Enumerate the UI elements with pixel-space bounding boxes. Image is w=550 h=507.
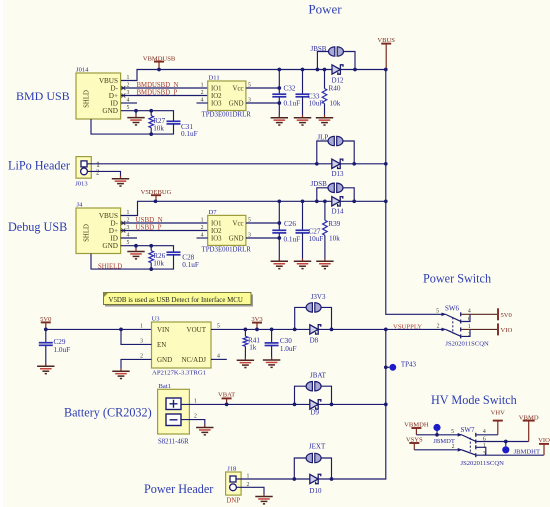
junction J3V3 right	[330, 328, 334, 332]
no-ERC marks on J4 D- / D+ pins	[121, 221, 125, 225]
svg-text:3V3: 3V3	[251, 316, 263, 323]
wire J4 ID pin stub	[121, 237, 137, 239]
resistor R26 10k	[149, 251, 154, 263]
power port 3V3	[251, 316, 263, 329]
capacitor C29 1.0uF	[45, 329, 47, 342]
svg-text:D14: D14	[332, 208, 345, 216]
wire LiPo pin1 row	[87, 163, 332, 165]
junction C27 top	[301, 199, 305, 203]
junction R39 top	[323, 199, 327, 203]
svg-text:S8211-46R: S8211-46R	[158, 438, 189, 445]
svg-text:1: 1	[201, 217, 204, 223]
svg-text:10k: 10k	[153, 259, 164, 267]
ground at Bat1 pin2	[196, 425, 213, 435]
junction R27 / shield rail	[149, 132, 153, 136]
svg-text:JBAT: JBAT	[310, 371, 327, 379]
junction 5V0 stem	[44, 328, 48, 332]
junction C33 top	[301, 68, 305, 72]
junction 3V3 stem	[255, 328, 259, 332]
svg-text:10uF: 10uF	[309, 235, 324, 243]
svg-text:D9: D9	[311, 409, 320, 417]
svg-text:GND: GND	[102, 242, 118, 250]
ground at J18 pin2	[255, 494, 272, 504]
svg-text:10uF: 10uF	[309, 100, 324, 108]
jumper JBSB	[317, 52, 329, 70]
junction JDSB left	[315, 199, 319, 203]
svg-text:2: 2	[452, 444, 455, 450]
svg-text:VBMDUSB: VBMDUSB	[143, 55, 176, 62]
svg-text:VBUS: VBUS	[377, 37, 395, 44]
svg-text:LiPo Header: LiPo Header	[8, 159, 70, 173]
svg-text:1: 1	[201, 82, 204, 88]
power port 5V0 (at C29)	[40, 316, 52, 329]
junction LiPo row / VBUS column	[384, 162, 388, 166]
junction J3V3 left	[293, 328, 297, 332]
ground at R41	[237, 357, 254, 367]
wire V5DEBUG net (J4 VBUS to D14 anode)	[121, 201, 332, 215]
diode D8 (schottky)	[310, 325, 321, 334]
junction R40 top	[323, 68, 327, 72]
power port VBAT	[218, 392, 235, 405]
wire SW7 pin4 to VHV	[477, 434, 498, 436]
svg-text:0.1uF: 0.1uF	[284, 235, 301, 243]
wire VOUT row (U3 to D8 anode)	[211, 328, 310, 330]
power port VBMDH	[404, 421, 429, 434]
wire VBAT row (Bat1 pin1 to D9 anode)	[181, 403, 310, 405]
svg-text:10k: 10k	[329, 234, 340, 242]
svg-text:Battery (CR2032): Battery (CR2032)	[64, 406, 152, 420]
wire D9 cathode to vertical	[318, 403, 386, 405]
note V5DB is used as USB Detect for Interface MCU	[104, 293, 254, 307]
junction J4 GND / ground	[134, 244, 138, 248]
svg-text:1: 1	[140, 323, 143, 329]
svg-text:IO2: IO2	[211, 228, 222, 235]
junction JDSB right	[352, 199, 356, 203]
svg-text:D8: D8	[310, 336, 319, 344]
svg-text:2: 2	[140, 353, 143, 359]
svg-text:SW7: SW7	[461, 426, 476, 434]
capacitor C32 0.1uF	[278, 70, 280, 95]
svg-text:2: 2	[201, 225, 204, 231]
svg-text:4: 4	[483, 429, 486, 435]
svg-text:5: 5	[436, 309, 439, 315]
junction JBSB left	[316, 68, 320, 72]
svg-text:JBSB: JBSB	[311, 45, 327, 53]
connector J4 (Debug USB)	[76, 208, 121, 254]
wire SW6 pin1 to VIO	[461, 328, 497, 330]
junction D9 row / vertical	[384, 403, 388, 407]
svg-text:2: 2	[201, 90, 204, 96]
wire D7 IO3 stub	[197, 237, 208, 239]
svg-text:JS202011SCQN: JS202011SCQN	[461, 460, 505, 467]
junction EN / VIN	[119, 328, 123, 332]
svg-text:GND: GND	[229, 100, 244, 107]
svg-text:D11: D11	[209, 74, 220, 81]
svg-text:U3: U3	[152, 316, 161, 323]
power port VBUS	[377, 37, 395, 70]
diode D12 (schottky)	[332, 65, 343, 74]
junction JLP left	[315, 162, 319, 166]
wire SW7 pin3 row to VIO	[477, 454, 544, 456]
wire J18 pin1 to D10 anode	[236, 478, 310, 480]
svg-text:2: 2	[194, 414, 197, 420]
wire J4 shield rail	[91, 254, 174, 270]
junction J4 GND / R26	[149, 244, 153, 248]
wire SW7 pin1 tie to pin3	[477, 447, 486, 455]
connector J013 (LiPo header)	[76, 157, 91, 179]
wire U3 NC/ADJ stub	[211, 358, 227, 360]
ground at U3 GND	[112, 368, 129, 378]
svg-text:C26: C26	[284, 220, 296, 228]
svg-text:VIN: VIN	[157, 326, 169, 334]
wire VSUPPLY vertical (TP43 / D9 / D10)	[318, 329, 386, 479]
power port V5DEBUG	[141, 189, 172, 202]
svg-text:SHIELD: SHIELD	[98, 263, 122, 270]
diode D10 (schottky)	[310, 474, 321, 483]
svg-text:JLP: JLP	[317, 134, 328, 142]
wire SW7 pin6 row	[477, 441, 529, 443]
svg-text:J013: J013	[75, 180, 88, 187]
svg-text:NC/ADJ: NC/ADJ	[181, 356, 206, 364]
wire VBUS vertical to SW6 pin5	[386, 70, 446, 315]
wire J18 pin2 to ground	[236, 487, 264, 496]
svg-text:SHLD: SHLD	[84, 90, 91, 108]
svg-text:2: 2	[96, 169, 100, 177]
junction D7 Vcc / C26	[277, 221, 281, 225]
svg-text:C32: C32	[284, 85, 296, 93]
wire debug row to VBUS column	[340, 200, 386, 202]
junction C32 top	[277, 68, 281, 72]
power port VIO (HV)	[538, 437, 550, 455]
wire D11 GND to C32 column	[246, 102, 279, 104]
wire J014 ID pin stub	[121, 102, 137, 104]
svg-text:JS202011SCQN: JS202011SCQN	[445, 341, 489, 348]
svg-text:IO1: IO1	[211, 220, 222, 227]
junction JBMDT	[435, 433, 439, 437]
junction VSUPPLY / vertical	[384, 328, 388, 332]
svg-text:JEXT: JEXT	[309, 443, 326, 451]
svg-text:R40: R40	[329, 84, 341, 92]
junction D7 GND / C26	[277, 236, 281, 240]
power port VHV	[491, 409, 506, 435]
wire D7 Vcc to C26 column	[246, 222, 279, 224]
junction V5DEBUG stem	[154, 199, 158, 203]
svg-text:VSUPPLY: VSUPPLY	[393, 323, 422, 330]
junction J014 GND / ground	[134, 109, 138, 113]
ground at J014 GND	[135, 111, 137, 118]
junction JEXT right	[330, 477, 334, 481]
IC D7 TPD3E001DRLR (ESD protection)	[208, 215, 246, 245]
wire U3 EN tie to VIN	[121, 329, 152, 344]
ground at C30	[263, 357, 280, 367]
svg-text:GND: GND	[229, 235, 244, 242]
junction C30 top	[270, 328, 274, 332]
svg-text:EN: EN	[157, 341, 166, 349]
wire BMDUSBD_N (J014 D- to D11 IO1)	[121, 87, 208, 89]
resistor R39 10k	[324, 201, 326, 220]
wire USBD_P (J4 D+ to D7 IO2)	[121, 230, 208, 232]
wire VSYS to SW7 pin2	[414, 449, 462, 451]
svg-text:V5DB is used as USB Detect for: V5DB is used as USB Detect for Interface…	[109, 297, 243, 304]
svg-text:IO2: IO2	[211, 93, 222, 100]
wire D7 GND to C26 column	[246, 237, 279, 239]
ground at C26	[271, 258, 288, 268]
svg-text:JDSB: JDSB	[311, 180, 328, 188]
svg-text:J3V3: J3V3	[311, 293, 326, 301]
capacitor C28 0.1uF	[167, 252, 181, 255]
svg-text:1k: 1k	[249, 344, 257, 352]
wire Bat1 pin2 to ground	[181, 420, 205, 428]
power port VIO (switch output)	[498, 323, 512, 335]
test point TP43	[386, 366, 390, 368]
svg-text:R39: R39	[328, 220, 340, 228]
svg-text:Debug USB: Debug USB	[8, 220, 67, 234]
svg-text:5: 5	[451, 429, 454, 435]
svg-text:VOUT: VOUT	[187, 326, 207, 334]
svg-text:1.0uF: 1.0uF	[280, 345, 297, 353]
svg-text:J014: J014	[76, 67, 89, 74]
svg-text:V5DEBUG: V5DEBUG	[141, 189, 172, 196]
junction TP43	[384, 365, 388, 369]
power port VSYS	[406, 436, 423, 449]
svg-text:JBMDHT: JBMDHT	[514, 448, 540, 455]
svg-text:VBMD: VBMD	[519, 414, 539, 421]
svg-text:1.0uF: 1.0uF	[54, 346, 71, 354]
regulator U3 AP2127K-3.3TRG1	[152, 322, 212, 368]
diode D14 (schottky)	[332, 197, 343, 206]
wire SW6 pin3 tie to pin1	[461, 329, 470, 336]
svg-text:0.1uF: 0.1uF	[181, 130, 198, 138]
wire LiPo pin2 to ground	[87, 171, 121, 178]
power port VBMDUSB	[143, 55, 176, 69]
svg-text:BMD USB: BMD USB	[16, 89, 70, 103]
junction JBMDHT	[504, 440, 508, 444]
resistor R41 1k	[244, 329, 246, 336]
ground at J013 pin2	[112, 176, 129, 186]
ground at R39	[316, 258, 333, 268]
wire USBD_N (J4 D- to D7 IO1)	[121, 222, 208, 224]
ground at J4 GND	[135, 246, 137, 252]
svg-text:4: 4	[217, 353, 220, 359]
IC D11 TPD3E001DRLR (ESD protection)	[208, 81, 246, 111]
no-ERC marks on J014 D- / D+ pins	[121, 86, 125, 90]
junction R26 / shield rail	[149, 267, 153, 271]
test point JBMDT	[436, 431, 438, 435]
diode D13 (schottky)	[332, 159, 343, 168]
wire VBMDH to SW7 pin5	[416, 434, 462, 436]
junction JBAT left	[293, 403, 297, 407]
junction VBUS column	[384, 68, 388, 72]
ground at R40	[316, 115, 333, 125]
svg-text:VIO: VIO	[538, 437, 550, 444]
connector J014 (BMD USB)	[76, 73, 121, 119]
svg-text:Vcc: Vcc	[233, 220, 244, 227]
svg-text:Vcc: Vcc	[233, 85, 244, 92]
jumper JDSB	[317, 188, 329, 202]
test point JBMDHT	[505, 442, 507, 447]
wire D11 IO3 stub	[197, 102, 208, 104]
svg-text:Bat1: Bat1	[159, 383, 171, 390]
junction JLP right	[352, 162, 356, 166]
svg-text:3: 3	[140, 338, 143, 344]
svg-text:VSYS: VSYS	[406, 436, 423, 443]
svg-text:TP43: TP43	[401, 361, 417, 369]
jumper J3V3	[295, 307, 307, 329]
junction JEXT left	[292, 477, 296, 481]
svg-text:5V0: 5V0	[501, 312, 513, 319]
junction C26 top	[277, 199, 281, 203]
svg-text:TPD3E001DRLR: TPD3E001DRLR	[202, 112, 252, 119]
wire D11 Vcc to C32 column	[246, 87, 279, 89]
wire SW6 pin4 to 5V0	[461, 313, 497, 315]
junction VBAT stem	[225, 403, 229, 407]
svg-text:GND: GND	[102, 107, 118, 115]
wire SW6 pin6 tie to pin4	[461, 314, 470, 321]
capacitor C30 1.0uF	[271, 329, 273, 343]
junction debug row / VBUS column	[384, 199, 388, 203]
battery holder Bat1 S8211-46R	[158, 389, 190, 434]
svg-text:10k: 10k	[330, 100, 341, 108]
ground at C29	[37, 363, 54, 373]
junction JBSB right	[353, 68, 357, 72]
svg-text:D13: D13	[332, 170, 345, 178]
svg-text:2: 2	[437, 324, 440, 330]
ground at C33	[294, 115, 311, 125]
svg-text:VBMDH: VBMDH	[404, 421, 429, 428]
wire VBMDUSB net (J014 pin1 to VBUS port column)	[121, 70, 386, 81]
svg-text:Power Header: Power Header	[144, 482, 213, 496]
junction J014 GND / R27	[149, 109, 153, 113]
svg-text:10k: 10k	[153, 124, 164, 132]
wire BMDUSBD_P (J014 D+ to D11 IO2)	[121, 95, 208, 97]
jumper JLP	[317, 141, 329, 164]
power port VBMD	[519, 414, 539, 441]
svg-text:VIO: VIO	[501, 327, 513, 334]
svg-text:SW6: SW6	[445, 304, 460, 312]
svg-text:IO1: IO1	[211, 85, 222, 92]
junction D11 Vcc / C32	[277, 86, 281, 90]
svg-text:J4: J4	[77, 202, 84, 209]
wire J014 GND row	[121, 111, 174, 122]
wire J4 GND row	[121, 246, 174, 253]
svg-text:5V0: 5V0	[40, 316, 52, 323]
svg-text:HV Mode Switch: HV Mode Switch	[431, 393, 517, 407]
svg-text:DNP: DNP	[226, 496, 240, 504]
capacitor C31 0.1uF	[167, 121, 181, 124]
power port 5V0 (switch output)	[498, 308, 513, 320]
capacitor C33 10uF	[302, 70, 304, 95]
svg-text:GND: GND	[157, 356, 172, 364]
junction VBMDUSB stem	[157, 68, 161, 72]
wire 5V0 to U3 VIN	[46, 328, 152, 330]
svg-text:IO3: IO3	[211, 235, 222, 242]
wire LiPo row to VBUS column	[340, 163, 386, 165]
svg-text:0.1uF: 0.1uF	[284, 99, 301, 107]
svg-text:SHLD: SHLD	[84, 224, 91, 242]
svg-text:J18: J18	[227, 466, 237, 473]
junction D11 GND / C32	[277, 101, 281, 105]
svg-text:D10: D10	[309, 487, 322, 495]
svg-text:4: 4	[468, 309, 471, 315]
svg-text:VHV: VHV	[491, 409, 506, 416]
capacitor C27 10uF	[302, 201, 304, 230]
svg-text:Power: Power	[308, 2, 342, 17]
wire VSUPPLY row (D8 to SW6 pin2)	[318, 328, 446, 330]
svg-text:D7: D7	[209, 209, 218, 216]
ground at C27	[294, 258, 311, 268]
diode D9 (schottky)	[310, 400, 321, 409]
svg-text:C30: C30	[280, 337, 292, 345]
svg-text:VBAT: VBAT	[218, 392, 235, 399]
svg-text:AP2127K-3.3TRG1: AP2127K-3.3TRG1	[152, 370, 206, 377]
svg-text:TPD3E001DRLR: TPD3E001DRLR	[202, 246, 252, 253]
svg-text:5: 5	[217, 323, 220, 329]
svg-text:1: 1	[194, 398, 197, 404]
svg-text:IO3: IO3	[211, 100, 222, 107]
svg-text:Power Switch: Power Switch	[423, 272, 491, 286]
connector J18 (power header)	[226, 472, 242, 495]
wire U3 GND to ground	[121, 359, 152, 371]
svg-text:D12: D12	[332, 77, 345, 85]
resistor R40 10k	[324, 70, 326, 89]
jumper JBAT	[295, 386, 307, 404]
resistor R27 10k	[149, 116, 154, 128]
svg-text:0.1uF: 0.1uF	[182, 261, 199, 269]
ground at C32	[271, 115, 288, 125]
junction R41 top	[244, 328, 248, 332]
jumper JEXT	[294, 458, 307, 479]
capacitor C26 0.1uF	[278, 201, 280, 230]
junction JBAT right	[330, 403, 334, 407]
wire J014 shield rail	[91, 119, 174, 134]
